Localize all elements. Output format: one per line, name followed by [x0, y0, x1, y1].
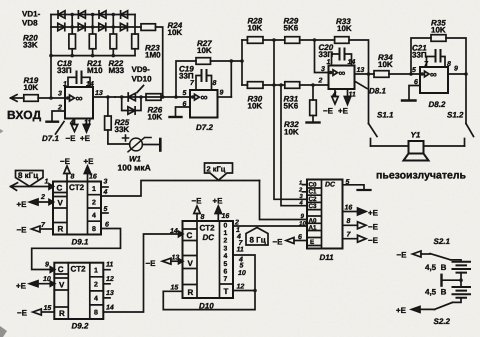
- switch S1.2: [465, 74, 474, 146]
- svg-text:S1.2: S1.2: [447, 111, 464, 120]
- svg-text:5: 5: [412, 67, 416, 74]
- D9.2 V input from +E: [30, 281, 55, 287]
- label пьезоизлучатель: [376, 170, 467, 182]
- D9.1 pin 16 +E arrow: [84, 166, 90, 182]
- svg-text:2: 2: [92, 199, 96, 206]
- pin 2 D7.1 wire: [52, 111, 65, 121]
- svg-text:A1: A1: [309, 225, 318, 232]
- svg-text:10K: 10K: [248, 24, 263, 33]
- svg-text:13: 13: [95, 90, 103, 97]
- ground at D8.2 pin 6: [402, 99, 416, 101]
- pin 5 D7.2: [191, 95, 195, 99]
- svg-text:33П: 33П: [319, 50, 334, 59]
- label R19 10K: [24, 76, 39, 92]
- svg-text:C0: C0: [309, 182, 318, 189]
- capacitor C21: [427, 50, 446, 67]
- label C18 33П: [57, 59, 72, 75]
- svg-text:VD10: VD10: [132, 75, 153, 84]
- svg-text:C: C: [57, 184, 63, 193]
- D11 output 8 to -E: [343, 222, 367, 229]
- svg-text:−E: −E: [146, 259, 157, 268]
- svg-text:V: V: [188, 259, 194, 268]
- svg-text:D9.1: D9.1: [72, 238, 89, 247]
- resistor R24: [141, 24, 163, 97]
- svg-text:11: 11: [349, 92, 356, 99]
- ground at D7.2 pin 6: [170, 116, 182, 118]
- resistor R30: [242, 82, 285, 89]
- D11 output 16 to +E: [343, 208, 367, 215]
- wire: D7.1 output line to D7.2 input: [115, 96, 190, 98]
- svg-text:−E: −E: [66, 134, 77, 143]
- capacitor C20: [332, 49, 352, 66]
- diode VD10 loop: [122, 97, 141, 111]
- svg-text:14: 14: [170, 228, 178, 235]
- svg-text:10: 10: [43, 276, 51, 283]
- D10 R input: [163, 290, 182, 292]
- label VD1-VD8: [22, 10, 41, 28]
- D11 C0 C1 stubs and pin numbers: [303, 185, 308, 192]
- svg-text:10K: 10K: [284, 128, 299, 137]
- flag 8 кГц: [16, 171, 44, 187]
- svg-text:∞: ∞: [201, 93, 208, 104]
- designator D11: [320, 253, 335, 262]
- svg-text:16: 16: [222, 213, 230, 220]
- svg-text:∞: ∞: [76, 94, 83, 105]
- D11 E input from -E: [286, 238, 307, 244]
- D9.1 output pin 6 to D9.2 C: [32, 229, 121, 270]
- svg-text:12: 12: [237, 284, 245, 291]
- svg-text:DC: DC: [203, 233, 215, 242]
- wire: diode row 1 top: [51, 14, 135, 16]
- svg-text:11: 11: [84, 120, 91, 127]
- svg-text:D7.1: D7.1: [42, 134, 59, 143]
- label R32 10K: [284, 120, 299, 137]
- wire: diode row 2: [51, 26, 141, 28]
- svg-text:14: 14: [106, 305, 114, 312]
- svg-text:2: 2: [57, 105, 62, 112]
- svg-text:4: 4: [69, 120, 74, 127]
- D10 output 0 (pin 2) to D11 A1: [233, 225, 307, 227]
- svg-text:1: 1: [327, 59, 331, 66]
- output pin 9 D7.2: [218, 96, 232, 98]
- svg-text:1M0: 1M0: [145, 51, 161, 60]
- svg-text:D9.2: D9.2: [72, 322, 89, 331]
- D9.1 output pin 5 stub: [101, 212, 108, 214]
- svg-text:15: 15: [44, 305, 52, 312]
- flag 2 кГц: [205, 163, 233, 180]
- resistor R25: [105, 97, 130, 144]
- svg-text:4: 4: [224, 253, 228, 260]
- diode VD6: [99, 23, 106, 30]
- pin 3 D8.1: [329, 71, 333, 75]
- svg-text:−E: −E: [273, 238, 284, 247]
- svg-text:8: 8: [347, 218, 351, 225]
- power pin 11 (+E) arrow D8.1: [344, 89, 350, 105]
- svg-text:3: 3: [224, 245, 228, 252]
- resistor R26: [146, 94, 161, 101]
- scan smudge bottom-left corner: [0, 326, 7, 337]
- svg-text:5: 5: [240, 263, 244, 270]
- pin 3 D7.1: [66, 96, 70, 100]
- wire: S1.1 to piezo: [371, 145, 409, 147]
- svg-text:8: 8: [94, 310, 98, 317]
- svg-text:6: 6: [298, 234, 302, 241]
- svg-text:13: 13: [106, 290, 114, 297]
- switch S2.1: [413, 251, 462, 262]
- svg-text:10K: 10K: [337, 24, 352, 33]
- D9.1 output pin 4 to 2kHz line: [101, 181, 260, 197]
- junction dots on R27 line: [230, 59, 234, 63]
- power pin 11 (+E) arrow D7.1: [83, 119, 89, 133]
- svg-text:VD9-: VD9-: [132, 65, 151, 74]
- svg-text:8: 8: [71, 174, 75, 181]
- svg-text:CT2: CT2: [71, 265, 87, 274]
- D9.1 labels CT2 C V R: [57, 183, 85, 234]
- svg-text:∞: ∞: [430, 70, 437, 81]
- svg-text:+E: +E: [368, 209, 379, 218]
- svg-text:10K: 10K: [248, 102, 263, 111]
- junction: D8.2 feedback tap: [409, 72, 413, 76]
- resistor R35 feedback: [411, 35, 466, 74]
- junction: input node: [49, 96, 53, 100]
- pin 6 D7.2 wire: [176, 107, 191, 116]
- svg-text:10K: 10K: [431, 26, 446, 35]
- callout line VD9: [137, 86, 144, 93]
- svg-text:5: 5: [346, 179, 350, 186]
- svg-text:8 кГц: 8 кГц: [18, 171, 38, 180]
- svg-text:R: R: [188, 288, 194, 297]
- svg-text:8 Гц: 8 Гц: [250, 236, 266, 245]
- net: divider output to D11 C3: [281, 85, 307, 206]
- svg-text:C: C: [58, 265, 64, 274]
- D11 internal cells: [307, 180, 322, 249]
- svg-text:9: 9: [454, 66, 458, 73]
- junction: feedback corner at D7.2 input: [174, 95, 178, 99]
- D9.1 internal dividers: [53, 182, 101, 235]
- label R34 10K: [378, 53, 393, 69]
- label W1 100 мкА: [118, 155, 151, 173]
- D11 output 7 to -E: [343, 235, 367, 242]
- svg-text:10: 10: [238, 270, 246, 277]
- D9.1 V input from +E: [30, 199, 54, 205]
- label R29 5K6: [284, 17, 299, 33]
- D9.2 output cell labels: [94, 267, 98, 316]
- svg-text:4: 4: [92, 213, 96, 220]
- svg-text:8: 8: [213, 80, 217, 87]
- D10 right pin number labels: [236, 227, 246, 277]
- svg-text:13: 13: [172, 255, 180, 262]
- pin 2 D8.1: [318, 78, 323, 85]
- terminal bar at W1: [159, 139, 162, 151]
- svg-text:4: 4: [103, 189, 108, 196]
- svg-text:D10: D10: [199, 301, 214, 310]
- resistor R19: [24, 95, 65, 102]
- svg-text:11: 11: [237, 247, 244, 254]
- svg-text:VD8: VD8: [22, 19, 38, 28]
- label R31 5K6: [284, 95, 299, 111]
- diode VD7: [121, 11, 128, 18]
- label R23 1M0: [145, 44, 161, 60]
- junction: R25 tap: [106, 95, 110, 99]
- label C20 33П: [319, 43, 334, 59]
- net: divider output to D11 C2: [274, 40, 307, 199]
- D9.1 output cell labels: [92, 186, 96, 233]
- scan smudge left edge: [0, 129, 4, 134]
- D9.2 internal dividers: [54, 263, 103, 319]
- ground at D7.1 pin 2: [47, 120, 59, 122]
- designator D9.2: [72, 322, 89, 331]
- svg-text:3: 3: [58, 91, 62, 98]
- svg-text:3: 3: [104, 179, 108, 186]
- resistor R22: [110, 34, 117, 56]
- label VD9-VD10: [132, 65, 153, 84]
- capacitor C18: [68, 72, 90, 88]
- svg-text:4: 4: [94, 296, 98, 303]
- svg-text:10: 10: [299, 221, 306, 228]
- svg-text:5: 5: [183, 90, 187, 97]
- label R22 M33: [109, 59, 125, 75]
- svg-text:5K6: 5K6: [284, 24, 299, 33]
- svg-text:9: 9: [301, 213, 305, 220]
- svg-text:5: 5: [224, 261, 228, 268]
- svg-text:+E: +E: [213, 197, 224, 206]
- svg-text:2: 2: [318, 78, 323, 85]
- svg-text:9: 9: [45, 262, 49, 269]
- resistor R27 feedback: [176, 58, 242, 97]
- svg-text:33П: 33П: [412, 51, 427, 60]
- svg-text:CT2: CT2: [69, 183, 85, 192]
- input arrow ВХОД: [11, 95, 24, 102]
- diode VD4: [78, 23, 85, 30]
- wire: ladder left vertical: [241, 40, 243, 85]
- counter D9.1: [53, 182, 101, 235]
- svg-text:D7.2: D7.2: [196, 123, 213, 132]
- designator D9.1: [72, 238, 89, 247]
- capacitor C19: [196, 70, 212, 90]
- designator D8.1 with callout: [356, 82, 367, 89]
- switch S2.2: [412, 298, 462, 313]
- svg-text:16: 16: [345, 205, 353, 212]
- svg-text:T: T: [224, 287, 229, 296]
- D10 C input wedge: [179, 231, 184, 236]
- svg-text:D11: D11: [320, 253, 335, 262]
- junction dots on diode ladder: [49, 13, 115, 58]
- diode VD2: [58, 23, 65, 30]
- svg-text:33K: 33K: [23, 41, 38, 50]
- meter W1: [128, 138, 145, 152]
- svg-text:6: 6: [105, 222, 109, 229]
- svg-text:10K: 10K: [168, 28, 183, 37]
- op-amp D7.2: [190, 90, 218, 118]
- svg-text:12: 12: [106, 276, 114, 283]
- svg-text:V: V: [58, 199, 64, 208]
- multiplexer D11: [307, 180, 343, 249]
- diode VD9: [128, 93, 135, 101]
- wire: inter-row links: [72, 15, 135, 35]
- label R28 10K: [248, 17, 263, 33]
- svg-text:11: 11: [106, 262, 113, 269]
- D9.2 R input from -E: [33, 309, 55, 315]
- flag 8 Гц: [246, 228, 268, 246]
- D11 pin 5 to ground: [343, 185, 365, 189]
- svg-text:5K6: 5K6: [284, 102, 299, 111]
- resistor R32: [310, 85, 317, 121]
- diode VD5: [99, 11, 106, 18]
- junctions of VD9/VD10 loop: [120, 95, 143, 99]
- wire: W1 to terminal: [142, 144, 159, 146]
- battery mid tap: [442, 273, 461, 287]
- svg-text:8: 8: [447, 61, 451, 68]
- svg-text:1: 1: [94, 267, 98, 274]
- svg-text:13: 13: [357, 67, 365, 74]
- svg-text:7: 7: [224, 276, 228, 283]
- label ВХОД: [7, 108, 42, 122]
- designator D8.2: [429, 100, 446, 109]
- svg-text:−E: −E: [397, 251, 408, 260]
- label R27 10K: [197, 39, 212, 55]
- svg-text:S1.1: S1.1: [377, 111, 394, 120]
- svg-text:V: V: [59, 281, 65, 290]
- counter D10: [183, 221, 234, 298]
- svg-text:15: 15: [171, 285, 179, 292]
- svg-text:2: 2: [234, 220, 239, 227]
- resistor R23: [132, 34, 139, 56]
- svg-text:16: 16: [89, 174, 97, 181]
- svg-text:ВХОД: ВХОД: [7, 108, 42, 122]
- op-amp D7.1: [65, 87, 93, 119]
- wire: ladder bottom rail: [51, 55, 135, 57]
- resistor R20: [69, 34, 76, 56]
- svg-text:S2.2: S2.2: [434, 317, 451, 326]
- label R26 10K: [148, 106, 163, 122]
- net: 2kHz to D11 A0: [260, 181, 308, 220]
- D9.1 C input wedge: [49, 184, 54, 189]
- svg-text:2: 2: [40, 194, 45, 201]
- designator D10: [199, 301, 214, 310]
- svg-text:−E: −E: [368, 236, 379, 245]
- svg-text:VD1-: VD1-: [22, 10, 41, 19]
- junction: R24 branch on input line: [161, 95, 165, 99]
- node: left rail of diode ladder: [50, 15, 52, 99]
- svg-text:−E: −E: [192, 197, 203, 206]
- label R33 10K: [336, 17, 352, 33]
- svg-text:R: R: [59, 309, 65, 318]
- svg-text:−E: −E: [60, 157, 71, 166]
- D9.1 R input from -E: [32, 226, 54, 232]
- svg-text:∞: ∞: [339, 68, 346, 79]
- svg-text:+E: +E: [17, 200, 28, 209]
- svg-text:D8.2: D8.2: [429, 100, 446, 109]
- svg-text:2 кГц: 2 кГц: [207, 165, 226, 174]
- resistor R34: [374, 71, 420, 78]
- D11 cell labels: [309, 182, 318, 247]
- D9.2 output pin 14 to D10 C: [103, 234, 182, 312]
- op-amp D8.1 symbol: [333, 70, 338, 76]
- wire: piezo to S1.2: [424, 145, 465, 147]
- op-amp D8.2 symbol: [425, 71, 430, 77]
- svg-text:M10: M10: [87, 66, 103, 75]
- junction ladder tap: [240, 59, 244, 63]
- svg-text:DC: DC: [325, 182, 336, 189]
- D10 pin 16 +E arrow: [215, 206, 221, 221]
- pin labels 1 14 of D8.1: [327, 59, 356, 66]
- svg-text:2: 2: [224, 238, 228, 245]
- svg-text:6: 6: [183, 101, 187, 108]
- svg-text:33П: 33П: [57, 66, 72, 75]
- svg-text:−E: −E: [17, 309, 28, 318]
- svg-text:C1: C1: [309, 189, 318, 196]
- svg-text:1: 1: [299, 181, 302, 187]
- label R21 M10: [87, 59, 103, 75]
- piezo Y1: [404, 141, 429, 161]
- svg-text:33K: 33K: [115, 125, 130, 134]
- D10 pin 8 -E arrow: [194, 206, 200, 221]
- svg-text:E: E: [310, 239, 314, 246]
- labels -E +E under D7.1: [66, 134, 91, 143]
- pin 6 D8.2 wire: [409, 86, 420, 100]
- svg-text:−E: −E: [368, 223, 379, 232]
- resistor R31: [285, 82, 329, 89]
- svg-text:10K: 10K: [24, 83, 39, 92]
- svg-text:5: 5: [104, 206, 108, 213]
- svg-text:6: 6: [224, 269, 228, 276]
- svg-text:14: 14: [86, 81, 94, 88]
- label R25 33K: [115, 118, 130, 134]
- svg-text:+E: +E: [84, 157, 95, 166]
- battery GB2 4.5V: [453, 287, 471, 298]
- D9.2 labels CT2 C V R: [58, 265, 86, 319]
- diode VD3: [78, 11, 85, 18]
- D9.1 pin 8 -E arrow: [64, 166, 70, 182]
- svg-text:14: 14: [348, 59, 356, 66]
- op-amp D7.2 symbol: [195, 94, 200, 100]
- switch S1.1: [369, 74, 378, 146]
- svg-text:C3: C3: [309, 203, 318, 210]
- svg-text:+E: +E: [338, 107, 349, 116]
- op-amp D8.2: [420, 67, 448, 93]
- svg-text:6: 6: [414, 79, 418, 86]
- svg-text:4,5 В: 4,5 В: [425, 288, 447, 297]
- D10 output 4 reset loop to R and T pin 12: [163, 255, 255, 310]
- svg-text:1: 1: [92, 186, 96, 193]
- label R20 33K: [23, 34, 38, 50]
- svg-text:D8.1: D8.1: [369, 87, 386, 96]
- svg-text:33П: 33П: [179, 72, 194, 81]
- diode VD1: [58, 11, 65, 18]
- resistor R28: [242, 37, 285, 44]
- label R30 10K: [248, 95, 263, 111]
- op-amp D8.1: [329, 66, 355, 90]
- resistor R29: [285, 37, 335, 44]
- svg-text:2: 2: [94, 281, 98, 288]
- net: R29/R33 to D8.1 pin 3: [315, 40, 329, 73]
- svg-text:9: 9: [220, 90, 224, 97]
- svg-text:S2.1: S2.1: [434, 237, 451, 246]
- pin labels 7 8 of D7.2: [190, 80, 217, 87]
- svg-text:1: 1: [45, 179, 49, 186]
- svg-text:−E: −E: [17, 226, 28, 235]
- svg-text:4: 4: [332, 92, 337, 99]
- pin labels 1 14 of D7.1: [63, 81, 94, 88]
- meter polarity marks: [123, 135, 152, 141]
- svg-text:Y1: Y1: [411, 131, 421, 140]
- diode VD8: [120, 23, 127, 30]
- svg-text:100 мкА: 100 мкА: [118, 163, 151, 173]
- labels -E +E under D8.1: [323, 107, 349, 116]
- resistor R21: [89, 34, 96, 56]
- wire: 8kHz input with arrow: [11, 183, 50, 191]
- output pin 9 D8.2: [448, 73, 466, 75]
